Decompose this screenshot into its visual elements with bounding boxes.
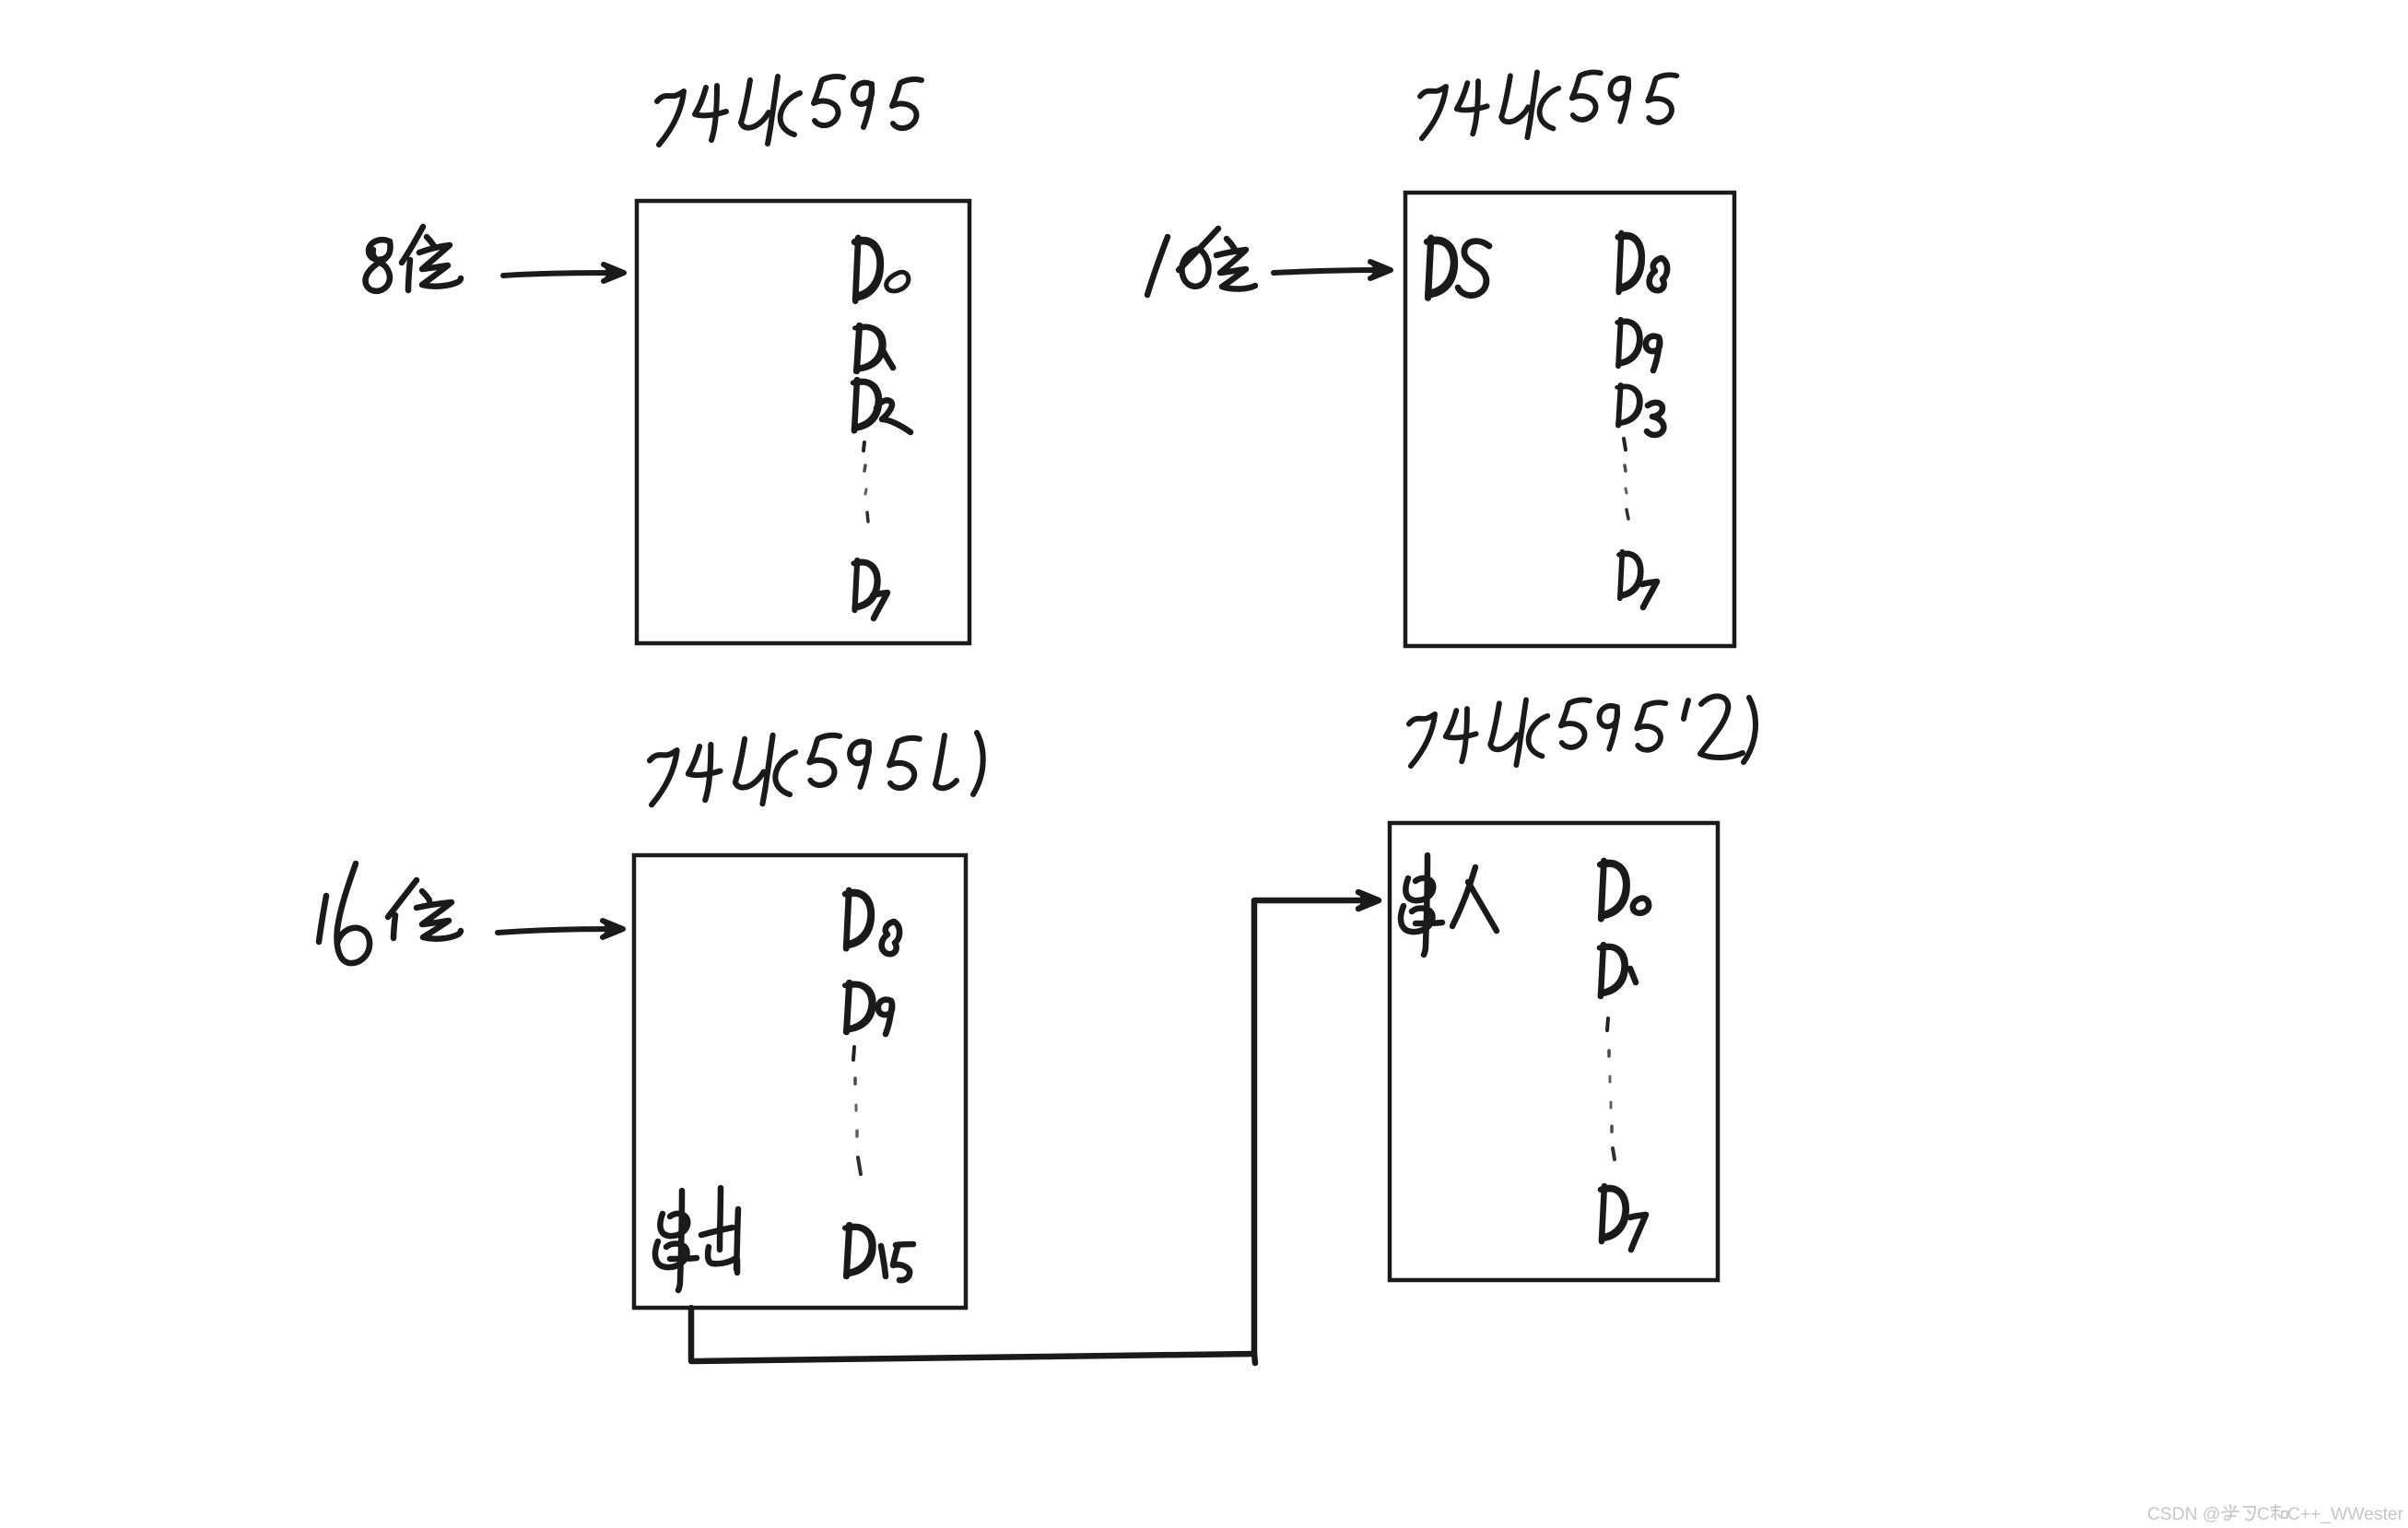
net label 16位 (input of U3) [319,864,461,963]
pin D7 (U2) [1619,552,1657,607]
pin D0 (U1) [854,238,909,300]
wire arrow into U2 [1274,261,1392,279]
svg-text:CSDN @: CSDN @ [2147,1505,2221,1524]
pin D15 (U3) [845,1225,913,1280]
ellipsis dots (U4) [1607,1018,1615,1159]
watermark CSDN @学习C和C++_WWester [2147,1505,2404,1524]
label 74HC595 (U1 title) [657,76,922,145]
net label 8位 (input of U1) [366,227,461,291]
pin D8 (U3) [845,890,899,954]
pin D9 (U3) [845,982,892,1034]
svg-text:C: C [2257,1505,2270,1524]
pin D7 (U1) [854,560,887,618]
pin D0 (U4) [1600,861,1649,919]
pin label 串出 (serial out, U3) [655,1188,738,1290]
svg-text:C++_WWester: C++_WWester [2287,1505,2404,1524]
pin D7 (U4) [1601,1186,1646,1250]
label 74HC595 (2) (U4 title) [1409,696,1756,766]
wire arrow into U1 [503,264,626,282]
pin D2 (U1) [853,380,910,432]
pin D1 (U1) [855,325,893,372]
ellipsis dots (U3) [853,1047,861,1174]
chip U2 box (74HC595 top-right) [1405,193,1734,646]
chip U4 box (74HC595 (2) bottom-right) [1390,823,1718,1280]
label 74HC595 (1) (U3 title) [650,733,983,805]
ellipsis dots (U1) [863,442,868,522]
ellipsis dots (U2) [1624,439,1628,519]
chip U1 box (74HC595 top-left) [637,201,969,643]
pin DS (U2) [1427,238,1489,298]
pin label 串入 (serial in, U4) [1401,855,1497,955]
pin D8 (U2) [1618,233,1668,292]
pin D3 (U2) [1617,384,1663,434]
label 74HC595 (U2 title) [1420,72,1676,138]
wire arrow into U3 [498,920,625,938]
pin D1 (U4) [1600,945,1636,996]
pin D9 (U2) [1617,320,1660,370]
wire from U3 serial-out to U4 serial-in [691,891,1380,1363]
chip U3 box (74HC595 (1) bottom-left) [634,855,966,1308]
net label 16位 (input of U2) [1147,229,1255,295]
